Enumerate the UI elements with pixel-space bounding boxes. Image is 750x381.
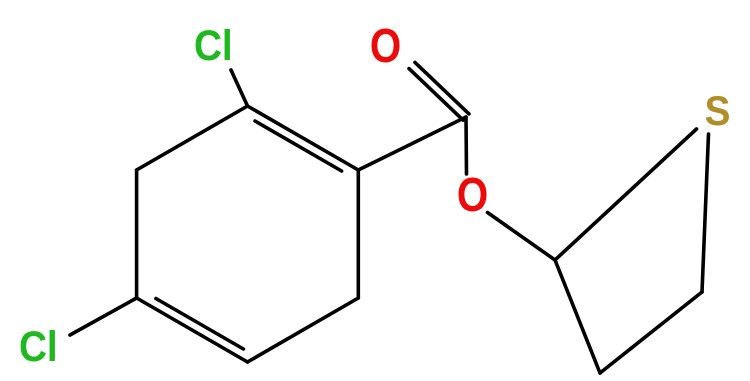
atom label Cl2 <box>19 322 58 370</box>
wire C=O double stroke a <box>415 62 469 114</box>
wire C=O double stroke b <box>409 69 463 121</box>
wire A-S bond <box>555 129 697 260</box>
svg-text:Cl: Cl <box>19 322 58 370</box>
wire A-B bond <box>555 260 600 373</box>
wire C1-C2 ring edge <box>248 106 359 170</box>
wire C1-Ccarb bond <box>358 117 466 170</box>
wire C6-C1 ring edge <box>356 170 360 298</box>
wire C4-Cl2 bond <box>70 298 137 335</box>
wire C3-C4 ring edge <box>135 170 139 298</box>
wire C4=C5 inner double line <box>156 299 244 350</box>
wire C-S bond <box>702 134 709 292</box>
wire C2-C3 ring edge <box>137 106 248 170</box>
svg-text:O: O <box>370 20 401 73</box>
atom label Cl1 <box>194 21 233 69</box>
wire Ccarb-Oest bond <box>464 117 468 174</box>
wire C4-C5 ring edge <box>137 298 248 362</box>
wire B-C bond <box>600 292 702 373</box>
wire C1=C2 inner double line <box>255 121 342 171</box>
svg-text:S: S <box>705 86 731 134</box>
wire Oest-A bond <box>488 213 556 261</box>
wire Cl1-C2 bond <box>231 70 248 106</box>
svg-text:Cl: Cl <box>194 21 233 69</box>
svg-text:O: O <box>457 169 488 222</box>
atom label S <box>705 86 731 134</box>
atom label O ester <box>457 169 488 222</box>
atom label O carbonyl <box>370 20 401 73</box>
wire C5-C6 ring edge <box>248 298 359 362</box>
